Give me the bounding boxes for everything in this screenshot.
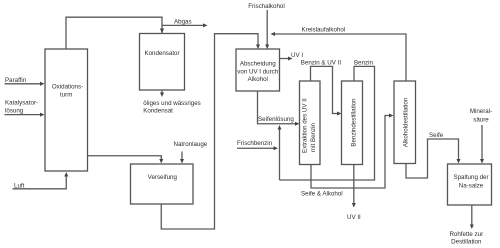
svg-text:Paraffin: Paraffin [5,77,27,84]
box Extraktion [300,81,321,165]
label oeliges und waessriges Kondensat [143,100,200,115]
label Abscheidung von UV I durch Alkohol [237,60,278,83]
wire frischbenzin inlet [237,146,278,150]
svg-text:Frischbenzin: Frischbenzin [237,140,273,147]
box Verseifung [131,164,194,204]
svg-text:Mineral-: Mineral- [470,108,492,115]
wire seife to spaltung [406,139,461,178]
box Abscheidung U1 [236,49,280,91]
svg-text:Kreislaufalkohol: Kreislaufalkohol [302,27,346,34]
svg-text:Verseifung: Verseifung [148,174,178,181]
label Mineralsaeure [470,108,492,123]
label Extraktion des UV II mit Benzin [302,98,318,153]
wire benzin riser join [278,125,282,180]
svg-text:Alkohol: Alkohol [248,76,268,83]
wire paraffin inlet [5,82,45,86]
wire rohfette outlet [470,205,474,229]
svg-text:Seife: Seife [429,132,444,139]
svg-text:UV II: UV II [347,214,361,221]
wire abgas branch [162,23,208,27]
box Kondensator [140,34,185,91]
wire verseifung to abscheidung (seifenloesung riser) [161,34,260,229]
svg-text:Natronlauge: Natronlauge [174,141,208,148]
wire UV I outlet [280,57,293,61]
svg-text:Destillation: Destillation [451,238,482,245]
svg-text:Frischalkohol: Frischalkohol [248,3,284,10]
svg-text:Abscheidung: Abscheidung [240,60,276,67]
box Benzindestillation [342,81,363,165]
svg-text:Oxidations-: Oxidations- [52,84,83,91]
label Rohfette zur Destillation [449,231,483,245]
wire natronlauge inlet [180,152,184,164]
wire UV II outlet [352,165,356,208]
wire oxidationsturm to verseifung [88,156,164,164]
wire seifenloesung to extraktion [258,91,300,126]
label Spaltung der Na-salze [453,174,488,189]
wire seife und alkohol to alkoholdestillation [311,114,394,189]
wire kreislaufalkohol recycle [271,32,407,81]
svg-text:mit Benzin: mit Benzin [310,123,317,152]
wire katalysatorloesung inlet [5,113,45,117]
svg-text:Seifenlösung: Seifenlösung [258,116,294,123]
svg-text:Abgas: Abgas [174,18,192,25]
svg-text:Benzin: Benzin [354,59,373,66]
wire oxidationsturm top to kondensator [66,17,164,49]
wire luft inlet [13,172,69,189]
svg-text:UV I: UV I [291,52,303,59]
wire benzin recycle loop [280,66,375,180]
svg-text:turm: turm [60,91,72,98]
box Alkoholdestillation [394,81,416,164]
wire frischalkohol inlet [265,10,269,49]
svg-text:von UV I durch: von UV I durch [237,68,278,75]
box Spaltung der Na-salze [448,164,492,205]
label Oxidationsturm [52,84,83,99]
svg-text:säure: säure [473,116,489,123]
svg-text:Kondensator: Kondensator [144,50,179,57]
label Katalysatorloesung [5,100,38,115]
svg-text:Benzin & UV II: Benzin & UV II [301,59,342,66]
wire mineralsaeure inlet [480,125,484,164]
svg-text:öliges und wässriges: öliges und wässriges [143,100,200,107]
svg-text:Na-salze: Na-salze [459,182,484,189]
wire kondensator bottom outlet [160,90,164,97]
svg-text:Alkoholdestillation: Alkoholdestillation [402,97,409,147]
svg-text:Katalysator-: Katalysator- [5,100,38,107]
svg-text:Benzindestillation: Benzindestillation [350,98,357,147]
svg-text:Seife & Alkohol: Seife & Alkohol [301,191,343,198]
box Oxidationsturm [45,49,88,171]
svg-text:Extraktion des UV II: Extraktion des UV II [302,98,309,153]
svg-text:Rohfette zur: Rohfette zur [449,231,483,238]
svg-text:lösung: lösung [5,108,24,115]
wire benzin and UV II to benzindestillation [311,66,342,115]
svg-text:Spaltung der: Spaltung der [453,174,488,181]
svg-text:Luft: Luft [14,183,25,190]
svg-text:Kondensat: Kondensat [143,108,173,115]
